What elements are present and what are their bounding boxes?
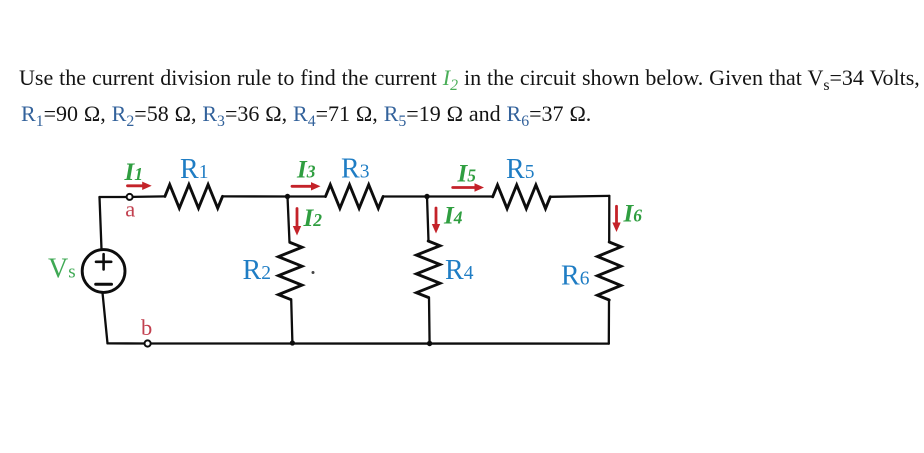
current arrow I5 — [453, 186, 477, 189]
wire: R3 to junction node d — [383, 195, 427, 197]
junction on bottom rail below R4 — [427, 341, 432, 346]
svg-text:R5: R5 — [506, 154, 534, 185]
wire: R6 down to bottom-right corner — [608, 300, 611, 344]
resistor R6 — [597, 242, 621, 300]
svg-text:b: b — [141, 315, 152, 340]
resistor R4 — [416, 241, 440, 297]
svg-text:R6: R6 — [561, 261, 590, 292]
current arrow I2 — [296, 209, 299, 229]
resistor R5 — [493, 185, 551, 209]
svg-text:I2: I2 — [303, 205, 323, 232]
wire: junction c down to R2 — [288, 197, 290, 243]
wire: top-right corner down to R6 — [608, 196, 610, 242]
problem statement line 2 — [21, 103, 591, 125]
wire: bottom rail from node b to bottom-right corner — [151, 342, 609, 344]
junction node c (top of R2) — [285, 194, 290, 199]
current arrow I1 — [128, 184, 145, 187]
current arrow I3 — [292, 185, 313, 188]
wire: junction c to R3 — [288, 195, 326, 197]
problem statement line 1 — [19, 67, 920, 89]
wire: bottom-left corner to node b — [108, 342, 145, 344]
current arrow I6 — [615, 206, 618, 224]
svg-text:I6: I6 — [623, 201, 643, 228]
resistor R3 — [326, 185, 384, 209]
junction on bottom rail below R2 — [290, 340, 295, 345]
svg-text:R1: R1 — [180, 154, 208, 185]
svg-text:I5: I5 — [457, 161, 477, 188]
current arrow I4 — [435, 208, 438, 226]
resistor R1 — [165, 185, 223, 209]
wire: R2 down to bottom rail — [291, 299, 292, 342]
wire: R4 down to bottom rail — [428, 297, 431, 343]
resistor R2 — [278, 243, 302, 300]
wire: junction d down to R4 — [427, 197, 429, 242]
junction node d (top of R4) — [424, 194, 429, 199]
wire: junction d to R5 — [427, 195, 493, 197]
svg-text:I1: I1 — [124, 159, 143, 186]
stray dot next to R2 — [312, 271, 315, 274]
wire: top-left corner down to source + — [100, 197, 102, 249]
wire: source - down to bottom-left corner — [103, 293, 108, 344]
svg-text:I4: I4 — [443, 203, 463, 230]
wire: R1 to junction node c — [223, 195, 288, 197]
svg-text:I3: I3 — [296, 157, 316, 184]
svg-text:Vs: Vs — [48, 254, 76, 285]
wire: node a to R1 — [133, 195, 165, 198]
svg-text:R4: R4 — [445, 255, 474, 286]
voltage source Vs — [82, 250, 125, 293]
svg-text:R2: R2 — [243, 255, 271, 286]
svg-text:a: a — [125, 196, 135, 221]
node b — [145, 340, 151, 346]
node a — [127, 194, 133, 200]
wire: top-left corner to node a — [100, 196, 127, 198]
wire: R5 to top-right corner — [550, 195, 609, 198]
svg-text:R3: R3 — [341, 154, 369, 185]
